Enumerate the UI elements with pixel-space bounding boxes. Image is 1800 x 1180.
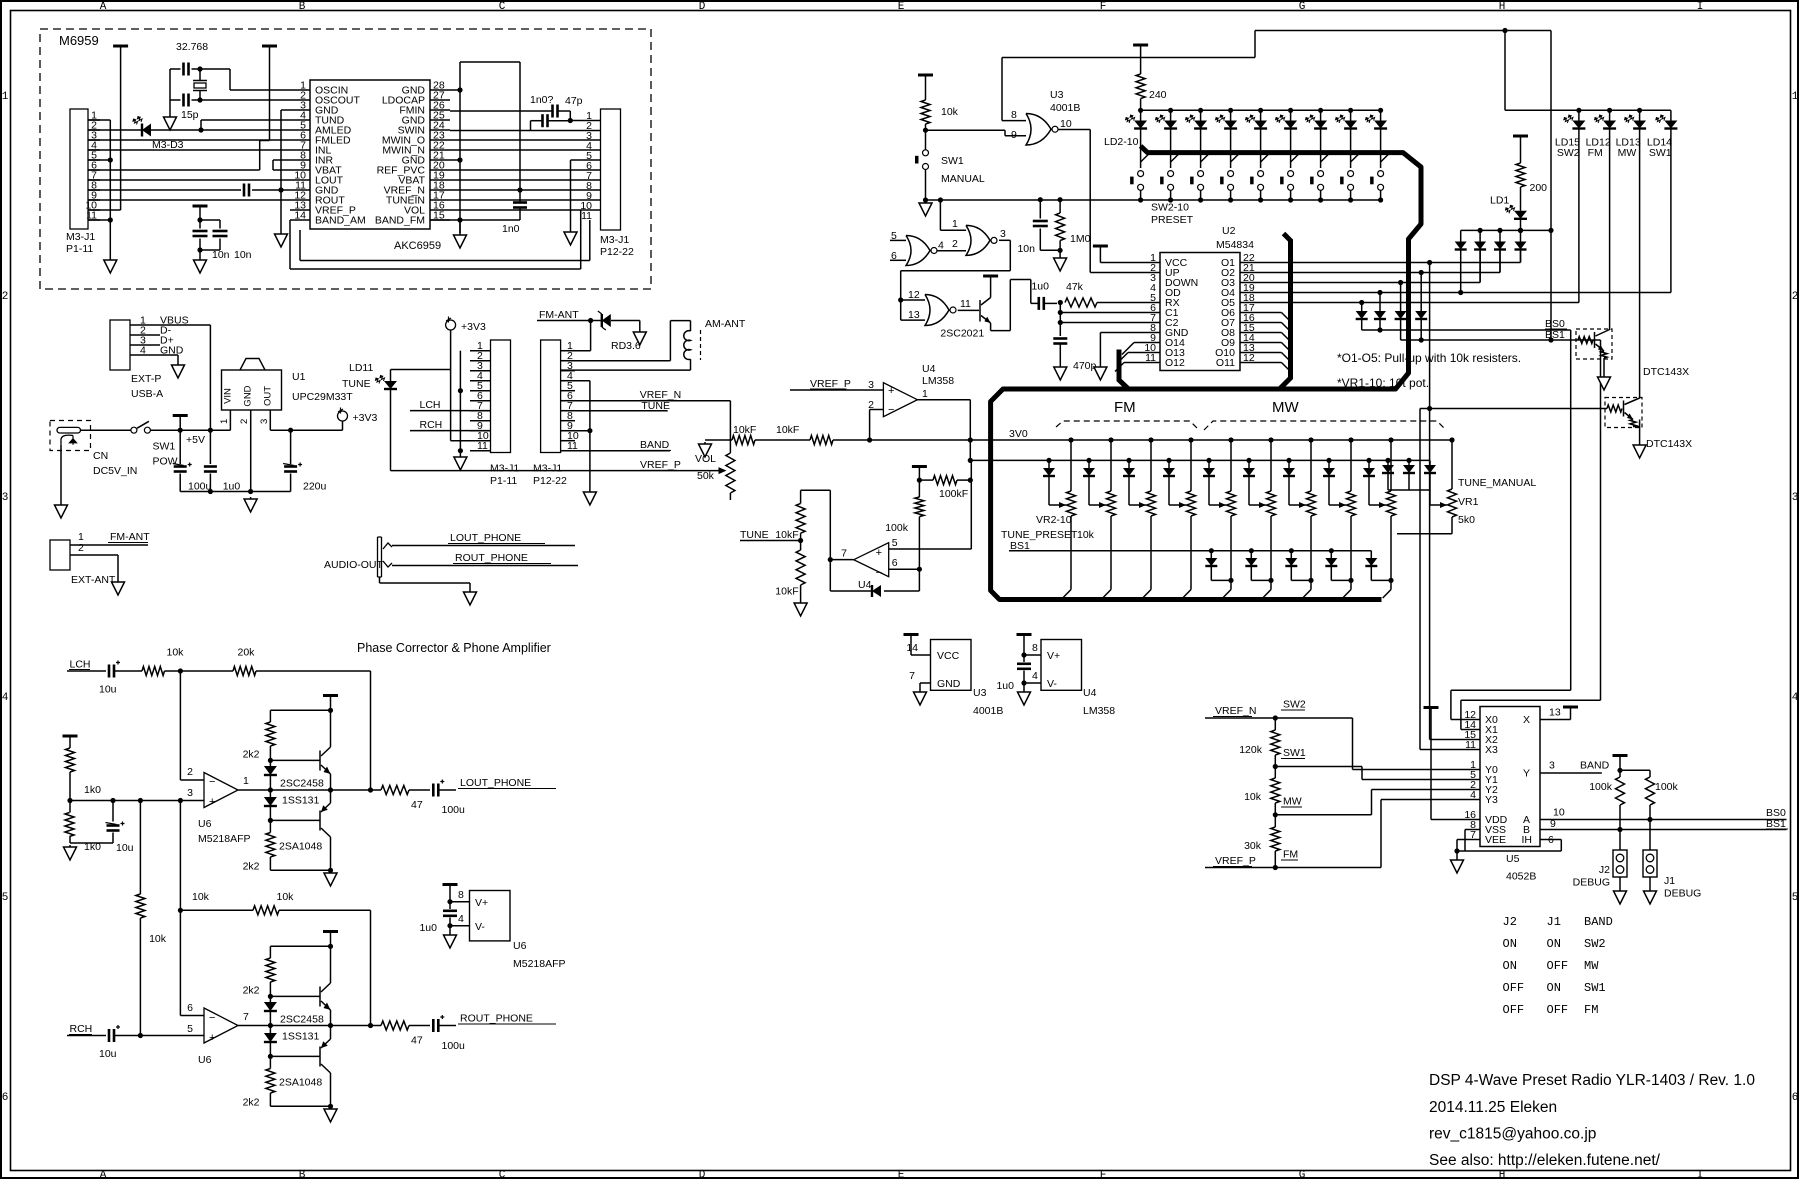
transistor Q-2SC2458 rch [319,987,321,1007]
bottom rail lch stage [270,869,330,871]
svg-text:2k2: 2k2 [243,1097,260,1109]
switch SW6 [1261,151,1273,162]
led LD4 [1198,108,1203,113]
wire VSS [1465,829,1480,831]
node u1 in [208,428,213,433]
svg-text:RCH: RCH [420,419,443,431]
wire gate b inputs [890,239,906,241]
svg-text:*VR1-10: 10t pot.: *VR1-10: 10t pot. [1337,376,1429,390]
wire TUND pin4 [201,119,290,121]
wire +3v3 to pin10 [450,330,452,441]
led LD10 [1378,108,1383,113]
svg-text:1: 1 [243,775,249,787]
bias chain 1k0 1k0 [63,735,78,738]
transistor Q-2SC2458 [319,751,321,771]
svg-text:6: 6 [1792,1092,1799,1104]
switch SW3 [1171,151,1183,162]
svg-text:LCH: LCH [70,659,91,671]
ground [800,601,802,603]
wire vrefn to vol pot [729,401,731,453]
wire c1 row [1060,312,1160,314]
node bs0 [1647,817,1652,822]
svg-text:+3V3: +3V3 [353,412,378,424]
ground [704,442,706,444]
svg-text:3: 3 [187,787,193,799]
capacitor 10n preset [1038,197,1043,202]
svg-text:U4: U4 [1083,687,1097,699]
resistor 2k2 bottom rch [269,1056,271,1068]
svg-text:100k: 100k [1655,781,1679,793]
svg-text:I: I [1697,1,1704,13]
wire INR VBAT stubs [273,159,290,161]
svg-text:PRESET: PRESET [1151,214,1194,226]
diode band D6 [1379,293,1381,312]
pot VR3 [1108,437,1113,442]
svg-text:E: E [898,1170,905,1180]
svg-text:BAND: BAND [1580,760,1610,772]
diode tune 1 [1406,458,1411,463]
svg-text:1SS131: 1SS131 [282,1031,320,1043]
svg-text:M3-J1: M3-J1 [490,463,519,475]
svg-text:F: F [1100,1170,1107,1180]
ground [1059,365,1061,367]
svg-text:+: + [209,1032,215,1044]
wire nor8 input [1002,120,1026,122]
svg-text:5: 5 [187,1023,193,1035]
ground [330,1107,332,1109]
node vrefp div [1273,865,1278,870]
led LD6 [1258,108,1263,113]
wire U4b pin5 [889,548,972,550]
node gnd rail [328,868,333,873]
capacitor 15p lower [182,94,185,107]
thick bus preset [991,146,1421,600]
svg-text:E: E [898,1,905,13]
svg-text:10u: 10u [116,842,134,854]
svg-text:O12: O12 [1165,357,1185,369]
wire MWIN_O row [450,139,601,141]
svg-text:A: A [100,1170,107,1180]
svg-text:DEBUG: DEBUG [1664,888,1701,900]
svg-text:3: 3 [1549,760,1555,772]
wire sw2 to y0 [1352,718,1354,770]
wire p12 pin4 pin9 gnd [561,380,590,382]
wire gate c out wrap [999,239,1010,241]
svg-text:M54834: M54834 [1216,239,1254,251]
svg-text:M3-J1: M3-J1 [600,234,629,246]
svg-text:SW2: SW2 [1283,699,1306,711]
wire conn11 gnd [88,219,110,221]
svg-text:U1: U1 [292,371,306,383]
diode preset 6 [1206,458,1211,463]
svg-text:RD3.6: RD3.6 [611,340,641,352]
node sw1 top [923,128,928,133]
power flag +3V3 left [338,411,348,421]
capacitor 10u bias [110,798,115,803]
thick bus stub U2 [1119,350,1129,390]
wire U4b pin6 feedback [889,568,920,570]
svg-text:5: 5 [892,537,898,549]
net BS1 line [1009,550,1371,552]
diode preset lower 4 [1370,551,1372,558]
svg-text:11: 11 [581,210,592,222]
gate U3c nor [966,225,990,255]
wire VBAT row [450,179,601,181]
gate U3a nor [1026,114,1051,146]
pullup diode rail [1461,229,1551,231]
resistor 47 RCH [381,1021,409,1030]
pot VR10 [1388,437,1393,442]
svg-text:1u0: 1u0 [996,680,1014,692]
power flag +3V3 right [446,320,456,330]
transistor Q-DTC143X second [1605,398,1642,428]
svg-text:10k: 10k [167,647,185,659]
wire fmant to conn pin1 [590,321,592,351]
resistor 10k SW1 pullup [918,74,933,77]
wire X3 vertical [1419,409,1421,750]
svg-text:1u0: 1u0 [1031,281,1049,293]
wire ladder top [801,489,831,491]
right led rail [1505,109,1671,111]
led M3-D3 [88,129,142,131]
svg-text:2: 2 [952,238,958,250]
svg-text:SW2: SW2 [1557,147,1580,159]
svg-text:3: 3 [259,419,270,424]
svg-text:LOUT_PHONE: LOUT_PHONE [460,777,531,789]
led LD12 [1607,108,1612,113]
ground [250,497,252,499]
wire OSCIN to AKC6959 pin1 [200,68,230,70]
svg-text:FM: FM [1283,849,1298,861]
jumper J2 [1613,850,1627,877]
svg-text:G: G [1299,1170,1306,1180]
svg-text:P1-11: P1-11 [490,475,517,487]
wire conn tune line [561,410,668,412]
svg-text:8: 8 [458,889,464,901]
svg-text:DTC143X: DTC143X [1643,366,1689,378]
svg-text:3: 3 [1792,492,1799,504]
resistor 1k0 lower [65,813,74,837]
svg-text:10k: 10k [1077,529,1095,541]
node +5v [178,428,183,433]
svg-text:V-: V- [1047,678,1057,690]
ground [280,232,282,234]
ground [469,590,471,592]
svg-text:MW: MW [1283,796,1302,808]
output stage RCH [323,930,338,933]
feedback line rch [178,908,183,913]
svg-text:−: − [209,1012,215,1024]
ic AKC6959 left pins [290,89,310,91]
node top rail [328,708,333,713]
capacitor 10u RCH [108,1029,111,1042]
node bs1 [1617,827,1622,832]
svg-text:8: 8 [1032,642,1038,654]
svg-text:ON: ON [1503,937,1517,951]
svg-text:7: 7 [909,670,915,682]
ground near 1n0 [459,220,461,233]
dashed band bracket FM [1056,421,1199,430]
svg-text:+5V: +5V [186,434,205,446]
wire O5 row [1255,302,1579,304]
svg-text:FM: FM [1584,1003,1598,1017]
svg-text:6: 6 [892,557,898,569]
diode preset lower 0 [1209,548,1214,553]
svg-text:*O1-O5: Pull-up with 10k resis: *O1-O5: Pull-up with 10k resisters. [1337,351,1521,365]
svg-text:47: 47 [411,799,423,811]
diode preset 4 [1126,458,1131,463]
diode pullup D2 [1478,228,1483,233]
svg-text:U5: U5 [1506,853,1520,865]
power block U6 [443,883,458,886]
wire pin28 top route [460,61,520,63]
resistor 1k0 upper [66,748,75,772]
transistor Q-2SA1048 rch [319,1047,321,1067]
svg-text:OFF: OFF [1503,1003,1525,1017]
led LD9 [1348,108,1353,113]
switch SW4 [1201,151,1213,162]
wire conn9 to ROUT [88,199,290,201]
capacitor 1n0 [513,201,527,204]
connector EXT-P USB-A [110,320,130,370]
svg-text:11: 11 [477,440,488,452]
svg-text:U3: U3 [1050,89,1064,101]
svg-text:CN: CN [93,450,108,462]
capacitor 100u [179,430,181,464]
op-amp U6a [204,773,238,808]
wire rd36 gnd [639,321,641,331]
node vrefn [1273,715,1278,720]
svg-text:−: − [876,567,882,579]
wire gate d inputs [901,299,925,301]
svg-text:BAND: BAND [640,439,670,451]
node out lch [268,787,273,792]
connector EXT-ANT [50,540,70,570]
svg-text:1: 1 [922,388,928,400]
svg-text:C: C [499,1170,506,1180]
svg-text:VREF_P: VREF_P [1215,855,1256,867]
wire sw1 to nor input 9 [926,129,1006,131]
wire O2 row [1255,272,1500,274]
transistor Q-2SA1048 [319,811,321,831]
wire c2 row [1060,322,1160,324]
svg-text:LM358: LM358 [1083,705,1115,717]
svg-text:3: 3 [868,379,874,391]
svg-text:2k2: 2k2 [243,985,260,997]
svg-text:U6: U6 [198,818,212,830]
svg-text:VREF_P: VREF_P [810,378,851,390]
svg-text:B: B [299,1170,306,1180]
capacitor 1u0 rx [1038,297,1041,310]
svg-text:BS1: BS1 [1545,329,1565,341]
svg-text:1u0: 1u0 [223,481,241,493]
wire gnd pin8 U2 [1100,332,1160,334]
svg-text:U6: U6 [513,940,527,952]
wire LD12 column [1609,129,1611,331]
svg-text:30k: 30k [1244,840,1262,852]
led LD14 [1670,110,1672,120]
svg-text:1: 1 [219,419,230,424]
ground [60,503,62,505]
led LD2 [1138,108,1143,113]
capacitor 1u0 u4 [1023,655,1025,662]
led rail LD2-10 [1141,109,1381,111]
node out rail [328,787,333,792]
node u1 out [288,428,293,433]
svg-text:VREF_N: VREF_N [1215,705,1256,717]
diode upper rch [269,996,271,1002]
diode preset 8 [1286,458,1291,463]
svg-text:DTC143X: DTC143X [1646,438,1692,450]
diode preset 3 [1086,458,1091,463]
resistor 10kF ladder upper [800,490,802,503]
resistor 200 [1516,163,1525,187]
capacitor 15p upper [182,63,185,76]
svg-text:+: + [209,796,215,808]
diode preset 2 [1046,458,1051,463]
svg-text:11: 11 [960,298,971,310]
node lch [178,668,183,673]
svg-text:8: 8 [1011,109,1017,121]
output stage LCH [323,694,338,697]
capacitor 10n second [200,219,220,221]
svg-text:USB-A: USB-A [131,388,163,400]
gate U3b nor [906,236,930,266]
wire GND21 stub [450,159,460,161]
svg-text:BAND_FM: BAND_FM [375,215,425,227]
svg-text:VCC: VCC [937,650,960,662]
transistor Q-DTC143X first [1576,329,1612,359]
capacitor 100u LCH [432,784,435,797]
svg-text:1: 1 [1792,91,1799,103]
wire u6a pin2 [179,671,181,780]
svg-text:ROUT_PHONE: ROUT_PHONE [460,1013,533,1025]
svg-text:VEE: VEE [1485,834,1506,846]
svg-text:U3: U3 [973,687,987,699]
wire OSCOUT to AKC6959 pin2 [200,99,290,101]
gate U3d nor [925,295,949,326]
svg-text:M3-J1: M3-J1 [66,231,95,243]
capacitor 10u LCH [108,665,111,678]
diode 1SS131 upper [269,760,271,766]
node sw1div [1273,764,1278,769]
power block U4 [1017,633,1032,636]
wire out to 47 [331,789,382,791]
diode preset 10 [1366,458,1371,463]
wire U3a output [1058,129,1090,131]
svg-text:BAND: BAND [1584,915,1613,929]
resistor 240 [1136,74,1145,99]
capacitor 470p [1053,337,1067,340]
svg-text:U6: U6 [198,1054,212,1066]
svg-text:FM-ANT: FM-ANT [110,531,150,543]
svg-text:2SA1048: 2SA1048 [279,841,322,853]
module outline M6959 [40,29,651,289]
capacitor coupling [243,184,246,197]
connector M3-J1 P1-11 [70,109,88,229]
svg-text:GND: GND [243,385,254,406]
ground [639,330,641,332]
svg-text:2SC2458: 2SC2458 [280,1014,324,1026]
svg-text:50k: 50k [697,470,715,482]
svg-text:4001B: 4001B [973,705,1003,717]
wire out to 47 rch [331,1025,382,1027]
svg-text:MANUAL: MANUAL [941,173,985,185]
diode U4b clamp [829,560,831,591]
wire sw1 bottom [925,170,927,201]
svg-text:2: 2 [2,291,9,303]
svg-text:4: 4 [938,240,944,252]
svg-text:LD11: LD11 [349,362,373,374]
ground [1456,851,1458,858]
wire FMIN to 47p [450,110,552,112]
svg-text:MW: MW [1584,959,1599,973]
power bar [262,45,277,48]
svg-text:100u: 100u [442,804,466,816]
svg-text:7: 7 [841,548,847,560]
svg-text:X3: X3 [1485,744,1498,756]
jumper J1 [1643,850,1657,877]
ground [1023,683,1025,690]
diode band D5 [1361,303,1363,312]
svg-text:9: 9 [1011,129,1017,141]
switch SW9 [1351,151,1363,162]
svg-text:100kF: 100kF [939,488,968,500]
svg-text:M3-J1: M3-J1 [533,463,562,475]
power bar LD1 [1513,135,1528,138]
svg-text:10k: 10k [149,933,167,945]
node base1 [268,758,273,763]
svg-text:M6959: M6959 [59,33,99,48]
svg-text:−: − [209,776,215,788]
svg-text:OFF: OFF [1547,959,1569,973]
power bar 2sc2021 [983,275,998,278]
node bias [67,798,72,803]
svg-text:2: 2 [187,766,193,778]
svg-text:Phase Corrector & Phone Amplif: Phase Corrector & Phone Amplifier [357,641,551,655]
svg-text:P12-22: P12-22 [600,246,634,258]
switch SW1 [923,150,929,156]
svg-text:10kF: 10kF [775,586,798,598]
svg-text:4: 4 [1032,670,1038,682]
power bar VDD [1424,706,1439,709]
diode pullup D4 [1518,228,1523,233]
svg-text:12: 12 [908,289,920,301]
power bar 240 [1133,44,1148,47]
wire VREF_N row [450,189,601,191]
svg-text:H: H [1499,1,1506,13]
ic U5 4052B [1480,707,1540,847]
svg-text:1u0: 1u0 [419,922,437,934]
pot VR6 [1228,437,1233,442]
svg-text:2SA1048: 2SA1048 [279,1077,322,1089]
ground [459,233,461,235]
svg-text:ON: ON [1547,937,1561,951]
svg-text:LM358: LM358 [922,375,954,387]
svg-text:OUT: OUT [263,386,274,406]
svg-text:LCH: LCH [420,399,441,411]
svg-text:1: 1 [2,91,9,103]
svg-text:Y: Y [1523,768,1530,780]
svg-text:10kF: 10kF [775,529,798,541]
svg-text:VOL: VOL [695,453,716,465]
svg-text:P12-22: P12-22 [533,475,567,487]
pot VR7 [1268,437,1273,442]
svg-text:I: I [1697,1170,1704,1180]
svg-text:ROUT_PHONE: ROUT_PHONE [455,552,528,564]
wire jack ground [60,445,62,503]
wire O1 row [1255,262,1521,264]
